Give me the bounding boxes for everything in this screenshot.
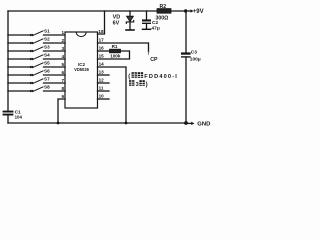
svg-text:10: 10 [99, 94, 105, 99]
switch S8 [8, 84, 65, 92]
switch S3 [8, 44, 65, 52]
wire R1 loop to pin 15 [98, 51, 130, 59]
wire pin 11 stub [98, 86, 110, 91]
switch S5 [8, 60, 65, 68]
wire pin 12 stub [98, 78, 110, 83]
svg-text:CP: CP [150, 57, 158, 63]
wire pin 9 to ground rail [58, 94, 65, 123]
svg-text:6: 6 [61, 70, 64, 75]
wire pin 13 stub [98, 70, 110, 75]
svg-text:VD5026: VD5026 [74, 67, 90, 72]
svg-text:): ) [146, 82, 148, 88]
svg-text:9: 9 [61, 94, 64, 99]
svg-text:GND: GND [197, 122, 210, 128]
svg-text:S2: S2 [44, 36, 50, 41]
svg-text:S6: S6 [44, 68, 50, 73]
note annotation (from FDD400-I pin 3) [128, 72, 177, 88]
wire C3 to ground rail [185, 58, 187, 123]
svg-text:+9V: +9V [193, 9, 204, 15]
svg-text:R1: R1 [112, 44, 118, 49]
node +9V [184, 9, 204, 15]
svg-text:13: 13 [99, 70, 105, 75]
switch S4 [8, 52, 65, 60]
svg-text:3: 3 [61, 46, 64, 51]
svg-text:8: 8 [61, 86, 64, 91]
svg-text:S7: S7 [44, 76, 50, 81]
wire pin 14 to ground rail [98, 62, 127, 123]
resistor R2 [156, 4, 172, 21]
junction pin 14 / ground rail [125, 122, 128, 125]
wire pin 10 stub [98, 94, 110, 99]
svg-text:7: 7 [61, 78, 64, 83]
svg-text:R2: R2 [160, 4, 167, 10]
switch S6 [8, 68, 65, 76]
svg-text:C3: C3 [191, 50, 197, 56]
svg-text:104: 104 [15, 114, 23, 119]
switch S1 [8, 28, 65, 36]
svg-text:18: 18 [98, 29, 104, 34]
capacitor C3 [181, 50, 201, 63]
svg-text:S4: S4 [44, 52, 50, 57]
IC IC2 VD5026 (18-pin DIP body) [65, 32, 98, 108]
svg-text:17: 17 [99, 38, 105, 43]
svg-text:1: 1 [61, 30, 64, 35]
wire bottom ground rail [8, 122, 186, 124]
wire pin 17 to node CP [98, 38, 159, 63]
switch S2 [8, 36, 65, 44]
capacitor C2 [142, 11, 160, 31]
svg-text:S5: S5 [44, 60, 50, 65]
svg-text:5: 5 [61, 62, 64, 67]
svg-text:12: 12 [99, 78, 105, 83]
svg-text:3: 3 [136, 82, 139, 88]
zener diode VD [113, 11, 134, 29]
wire R2 to +9V node [171, 10, 186, 12]
svg-text:16: 16 [99, 46, 105, 51]
svg-text:FDD400-I: FDD400-I [144, 74, 177, 80]
capacitor C1 [3, 109, 23, 123]
svg-text:15: 15 [99, 54, 105, 59]
svg-text:47μ: 47μ [152, 25, 160, 31]
svg-text:S1: S1 [44, 28, 50, 33]
svg-text:S3: S3 [44, 44, 50, 49]
svg-text:(: ( [128, 74, 130, 80]
ground bar under zener VD [126, 29, 134, 31]
svg-text:11: 11 [99, 86, 104, 91]
svg-text:100μ: 100μ [190, 56, 201, 62]
svg-text:14: 14 [99, 62, 105, 67]
wire left switch-common rail [7, 11, 9, 111]
svg-text:6V: 6V [113, 21, 120, 27]
resistor R1 [98, 44, 121, 58]
svg-text:C2: C2 [152, 20, 158, 26]
wire pin 18 to supply rail [98, 11, 105, 34]
svg-text:2: 2 [61, 38, 64, 43]
wire top supply rail [8, 10, 157, 12]
svg-text:4: 4 [61, 54, 64, 59]
junction pin 9 / ground rail [57, 122, 60, 125]
svg-text:S8: S8 [44, 84, 50, 89]
wire +9V rail down right side [185, 11, 187, 52]
ground bar under C2 [143, 28, 151, 30]
switch S7 [8, 76, 65, 84]
svg-text:100k: 100k [110, 54, 121, 59]
node GND [184, 121, 210, 128]
